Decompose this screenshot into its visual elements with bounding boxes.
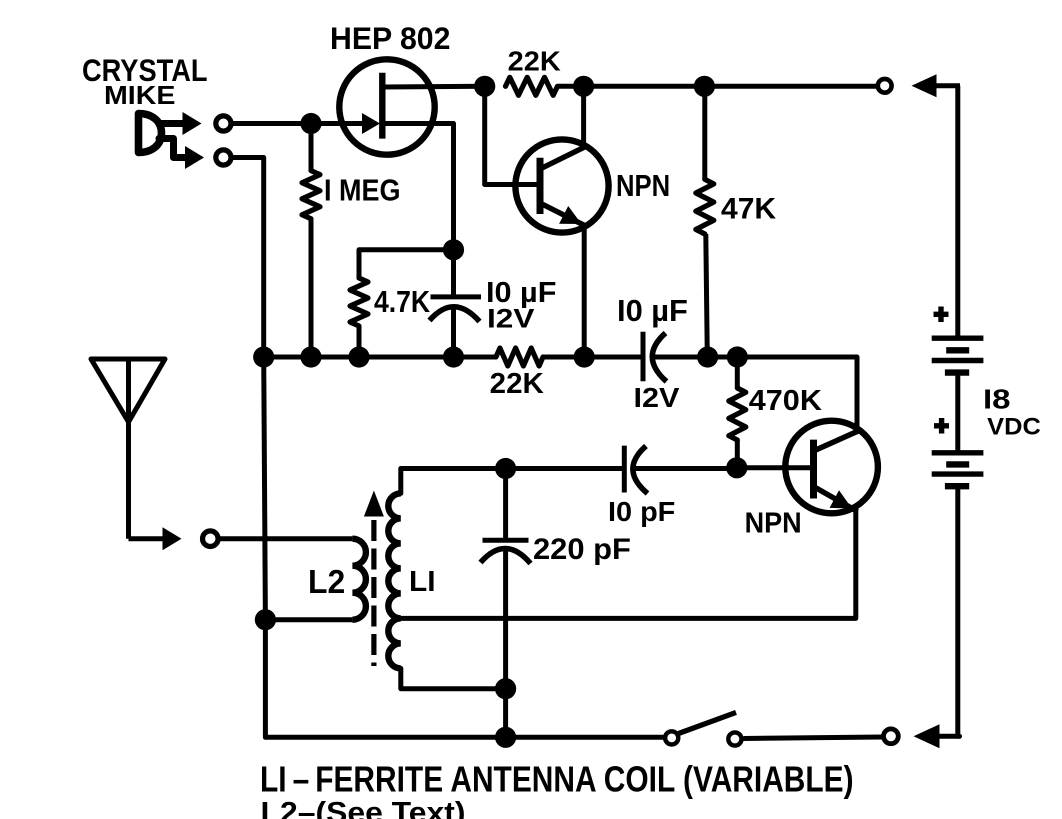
resistor 4.7K xyxy=(350,278,368,326)
wire 22K junction down to NPN1 base xyxy=(485,86,540,184)
wire left spine xyxy=(264,357,266,620)
node 47K top junction xyxy=(694,76,715,97)
svg-text:VDC: VDC xyxy=(987,414,1041,441)
terminal mic top xyxy=(216,116,231,131)
terminal mic bottom xyxy=(216,150,231,165)
svg-text:HEP 802: HEP 802 xyxy=(330,20,450,56)
label 10uF mid xyxy=(617,295,688,328)
transistor NPN Q1 xyxy=(515,139,608,232)
label 10pF xyxy=(608,496,675,527)
wire source to bypass node xyxy=(451,124,456,250)
node 1MEG bottom xyxy=(300,346,321,367)
battery 18 VDC xyxy=(932,338,984,486)
label + lower xyxy=(934,418,949,434)
wire 1 MEG top lead xyxy=(309,124,314,171)
node tank / ground rail xyxy=(495,727,516,748)
transistor NPN Q2 xyxy=(785,421,878,514)
wire 4.7K bottom lead xyxy=(357,326,362,357)
svg-text:22K: 22K xyxy=(490,368,545,400)
wire battery negative lead xyxy=(958,486,960,736)
node L2 bottom / left spine xyxy=(255,609,276,630)
node mic-top / 1 MEG junction xyxy=(300,113,321,134)
wire mic bottom to left spine xyxy=(231,158,264,358)
node NPN1 emitter / rail junction xyxy=(574,346,595,367)
terminal battery bottom xyxy=(884,729,899,744)
wire to 4.7K xyxy=(359,250,454,278)
svg-text:I0 pF: I0 pF xyxy=(608,496,675,527)
svg-text:MIKE: MIKE xyxy=(104,82,175,110)
arrow battery bottom feed xyxy=(914,724,960,748)
wire battery positive lead xyxy=(955,86,960,338)
wire 470K bottom lead xyxy=(735,440,740,468)
node 470K top xyxy=(727,346,748,367)
svg-text:NPN: NPN xyxy=(745,507,802,539)
wire NPN2 emitter down and left xyxy=(401,510,856,618)
wire NPN1 emitter down xyxy=(582,225,587,357)
resistor 1 MEG xyxy=(302,171,320,219)
wire mid rail left segment xyxy=(264,355,496,360)
antenna xyxy=(91,359,182,550)
label L1 xyxy=(409,566,436,598)
resistor 22K top xyxy=(506,77,584,95)
svg-text:L2–(See Text): L2–(See Text) xyxy=(261,797,466,819)
svg-text:220 pF: 220 pF xyxy=(533,533,631,566)
resistor 47K xyxy=(696,179,714,234)
wire top rail to battery terminal xyxy=(704,84,877,89)
label 470K xyxy=(749,385,822,417)
label 12V mid xyxy=(634,382,681,413)
label 47K xyxy=(721,193,777,226)
node L1 bottom / 220pF bottom xyxy=(495,678,516,699)
capacitor 220pF xyxy=(481,469,531,689)
svg-text:LI – FERRITE ANTENNA COIL (VAR: LI – FERRITE ANTENNA COIL (VARIABLE) xyxy=(260,760,854,800)
wire L2 bottom xyxy=(265,617,352,622)
svg-text:I0 µF: I0 µF xyxy=(617,295,688,328)
resistor 22K bottom xyxy=(496,348,543,366)
wire rail to 470K node xyxy=(708,355,738,360)
transistor HEP 802 (JFET) xyxy=(339,59,484,154)
svg-text:470K: 470K xyxy=(749,385,822,417)
ferrite core dashed arrow xyxy=(364,491,384,667)
node 47K bottom / rail xyxy=(697,346,718,367)
wire 47K top lead xyxy=(702,86,707,179)
node source / 4.7K / 10uF junction xyxy=(443,239,464,260)
node 470K / base / 10pF junction xyxy=(726,457,747,478)
switch S1 xyxy=(665,712,741,745)
label L2 xyxy=(308,564,345,601)
wire rail to NPN2 collector xyxy=(737,357,857,432)
label 1 MEG xyxy=(324,172,401,207)
crystal microphone symbol xyxy=(139,112,205,169)
label 220pF xyxy=(533,533,631,566)
svg-text:I2V: I2V xyxy=(634,382,681,413)
terminal B+ top right xyxy=(878,79,892,93)
svg-text:I2V: I2V xyxy=(487,304,535,334)
wire top rail to 47K xyxy=(584,84,705,89)
node 4.7K bottom xyxy=(348,346,369,367)
wire 47K bottom lead xyxy=(706,234,708,357)
label 12V top xyxy=(487,304,535,334)
svg-text:LI: LI xyxy=(409,566,436,598)
node left spine / mid rail xyxy=(253,346,274,367)
wire mic top to gate xyxy=(231,121,372,126)
caption L2 description xyxy=(261,797,466,819)
svg-text:4.7K: 4.7K xyxy=(374,286,430,319)
wire 22K to coupling cap xyxy=(543,355,643,360)
label 22K top xyxy=(508,46,562,77)
wire switch to battery terminal xyxy=(744,737,883,739)
capacitor 10uF 12V (Q1 stage bypass) xyxy=(430,250,482,357)
wire NPN2 base xyxy=(737,465,814,470)
svg-text:22K: 22K xyxy=(508,46,562,77)
svg-text:I MEG: I MEG xyxy=(324,172,401,207)
inductor L1 xyxy=(388,493,401,668)
node 22K / NPN1 collector junction xyxy=(573,76,594,97)
caption L1 description xyxy=(260,760,854,800)
svg-text:NPN: NPN xyxy=(616,170,670,203)
svg-text:47K: 47K xyxy=(721,193,777,226)
label NPN Q2 xyxy=(745,507,802,539)
node L1 top / 220pF / 10pF junction xyxy=(495,458,516,479)
node 10uF bottom xyxy=(443,346,464,367)
label + upper xyxy=(934,307,949,323)
resistor 470K xyxy=(729,388,746,440)
arrow battery top feed xyxy=(912,74,961,97)
wire 1 MEG bottom lead xyxy=(309,219,314,357)
node drain / 22K junction xyxy=(474,76,495,97)
svg-text:I8: I8 xyxy=(983,383,1011,414)
wire antenna to L2 top xyxy=(219,536,353,541)
wire left spine to ground rail xyxy=(263,620,268,738)
wire NPN1 collector up xyxy=(581,86,586,147)
wire L1 top xyxy=(401,469,506,494)
label 4.7K xyxy=(374,286,430,319)
capacitor 10uF 12V (interstage coupling) xyxy=(643,332,708,382)
label 18 VDC xyxy=(983,383,1041,440)
capacitor 10pF xyxy=(506,446,737,494)
wire L1 bottom xyxy=(401,668,506,688)
wire tank bottom to ground rail xyxy=(503,689,508,738)
label NPN Q1 xyxy=(616,170,670,203)
label 10uF top xyxy=(486,277,556,309)
label HEP 802 xyxy=(330,20,450,56)
label CRYSTAL MIKE xyxy=(82,52,208,110)
inductor L2 xyxy=(352,539,366,620)
svg-text:L2: L2 xyxy=(308,564,345,601)
wire 470K top lead xyxy=(735,357,740,388)
label 22K bottom xyxy=(490,368,545,400)
wire ground rail xyxy=(265,735,663,740)
terminal antenna feed xyxy=(203,531,219,547)
